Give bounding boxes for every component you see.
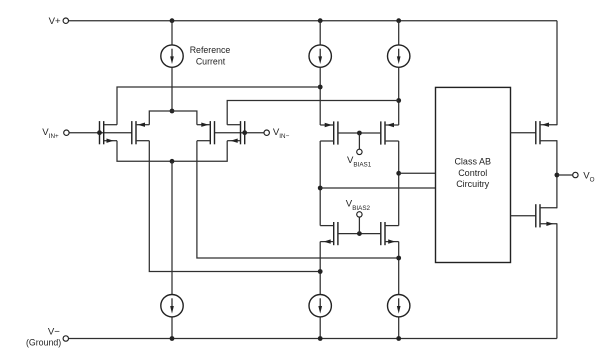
wire CS2 down to M5 source: [319, 67, 321, 125]
node M3 drain / M8 source junction: [396, 256, 401, 261]
wire VIN+ to M1/M2 gates: [69, 132, 132, 134]
wire M8 source down to CS6: [398, 242, 400, 295]
current source I4 (input tail): [161, 295, 183, 317]
current source I3: [388, 45, 410, 67]
wire VBIAS1 gate rail: [338, 132, 381, 134]
transistor M1 (input NMOS, VIN+): [100, 121, 118, 144]
wire M3/M4 gates to VIN-: [215, 132, 265, 134]
node M6 drain to control box junction: [396, 171, 401, 176]
transistor M9 (output PMOS): [536, 121, 557, 144]
wire M7 source down to CS5: [319, 242, 321, 295]
wire CS1 to input PMOS pair sources: [171, 67, 173, 111]
wire VBIAS2 terminal drop: [358, 217, 360, 234]
node V+/CS1 junction: [170, 18, 175, 23]
node V+/CS2 junction: [318, 18, 323, 23]
node VBIAS2 gate junction: [357, 231, 362, 236]
wire CS6 to V- rail: [398, 317, 400, 339]
wire M2 drain to M7 source column: [149, 141, 320, 272]
wire M5 drain down to M7 drain: [319, 141, 321, 226]
wire box to output PMOS gate: [511, 132, 536, 134]
svg-text:(Ground): (Ground): [26, 338, 61, 348]
V- terminal: [63, 336, 68, 341]
node M5 drain to control box junction: [318, 186, 323, 191]
VBIAS1 terminal: [357, 149, 362, 154]
node M4 drain / CS3 junction: [396, 98, 401, 103]
current source I6: [388, 295, 410, 317]
current source I1 (reference current): [161, 45, 183, 67]
svg-text:Control: Control: [458, 168, 487, 178]
svg-text:Circuitry: Circuitry: [456, 179, 489, 189]
VBIAS2 terminal: [357, 212, 362, 217]
wire right column to Class AB box: [399, 172, 436, 174]
node VBIAS1 gate junction: [357, 131, 362, 136]
current source I2: [309, 45, 331, 67]
VIN+ terminal: [64, 130, 69, 135]
wire CS3 down to M6 source: [398, 67, 400, 125]
transistor M3 (input PMOS, VIN-): [197, 121, 215, 144]
wire PMOS pair source node: [149, 111, 197, 125]
transistor M10 (output NMOS): [536, 204, 557, 227]
svg-text:Reference: Reference: [190, 45, 231, 55]
transistor M7 (cascode NMOS left): [320, 222, 338, 245]
transistor M5 (cascode PMOS left): [320, 121, 338, 144]
wire VO node to terminal: [557, 174, 573, 176]
wire M6 drain down to M8 drain: [398, 141, 400, 226]
Class AB control circuitry box: [436, 87, 511, 262]
wire NMOS pair tail node: [117, 141, 227, 162]
wire tail node down to CS4: [171, 161, 173, 294]
node M2 drain / M7 source junction: [318, 269, 323, 274]
node V+/CS3 junction: [396, 18, 401, 23]
wire CS1 to V+ rail: [171, 21, 173, 45]
svg-text:V+: V+: [49, 16, 61, 27]
wire VBIAS2 gate rail: [338, 233, 381, 235]
V+ terminal: [63, 18, 68, 23]
node V-/CS6 junction: [396, 336, 401, 341]
wire left column to Class AB box: [320, 187, 435, 189]
transistor M6 (cascode PMOS right): [381, 121, 399, 144]
wire CS5 to V- rail: [319, 317, 321, 339]
wire M4 drain to CS3 node: [227, 101, 399, 125]
node V-/CS5 junction: [318, 336, 323, 341]
V+ rail wire: [69, 20, 558, 22]
VIN- terminal: [264, 130, 269, 135]
svg-text:Current: Current: [196, 56, 226, 66]
V- rail wire: [69, 338, 557, 340]
current source I5: [309, 295, 331, 317]
node M4 gate junction: [242, 130, 247, 135]
wire M1 drain to CS2 node: [117, 87, 320, 125]
VO terminal: [573, 172, 578, 177]
node VO junction: [555, 173, 560, 178]
node NMOS pair tail: [170, 159, 175, 164]
wire box to output NMOS gate: [511, 215, 536, 217]
transistor M2 (input PMOS, VIN+): [132, 121, 150, 144]
transistor M8 (cascode NMOS right): [381, 222, 399, 245]
wire M9 drain to M10 drain (VO column): [556, 140, 558, 208]
wire VBIAS1 terminal drop: [358, 133, 360, 149]
node M1 drain / CS2 junction: [318, 85, 323, 90]
node M1 gate junction: [97, 130, 102, 135]
transistor M4 (input NMOS, VIN-): [227, 121, 245, 144]
wire CS2 to V+ rail: [319, 21, 321, 45]
wire M3 drain to M8 source column: [197, 141, 399, 258]
wire CS4 to V- rail: [171, 317, 173, 339]
wire M10 source down to V- rail: [556, 223, 558, 338]
wire CS3 to V+ rail: [398, 21, 400, 45]
node PMOS pair tail: [170, 109, 175, 114]
svg-text:Class AB: Class AB: [454, 157, 491, 167]
svg-text:V−: V−: [48, 326, 60, 337]
wire V+ rail down to output PMOS source: [556, 21, 558, 126]
node V-/CS4 junction: [170, 336, 175, 341]
